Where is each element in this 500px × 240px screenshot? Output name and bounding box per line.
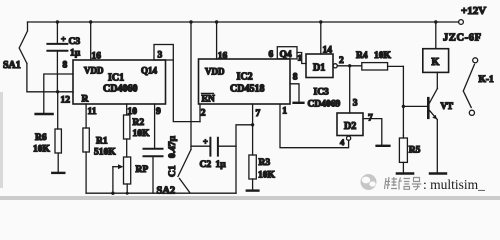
wire R4 to base node	[402, 66, 404, 138]
wire IC1 pin9	[155, 104, 161, 148]
ground IC2 pin8	[294, 102, 304, 104]
node bus junction SA2 branch	[189, 20, 192, 23]
capacitor C1	[144, 135, 179, 193]
node Q14 pin3 boxed label	[154, 45, 173, 61]
wire IC1 pin10	[127, 104, 138, 117]
wire IC2 pin1 to D2 output	[280, 104, 349, 148]
node reset junction	[56, 90, 59, 93]
node bus junction relay K	[434, 20, 437, 23]
wire C2 right branch	[236, 125, 253, 193]
wire +12V top bus	[28, 21, 459, 23]
resistor R3	[249, 155, 276, 190]
transistor Q1 VT	[403, 88, 453, 119]
node D1 output junction	[348, 64, 351, 67]
svg-text:: multisim_: : multisim_	[423, 177, 485, 192]
node Q4 boxed label	[277, 47, 297, 60]
watermark band	[0, 196, 500, 200]
switch K-1 relay contact	[463, 58, 494, 116]
relay K JZC-6F	[423, 22, 482, 72]
node base junction	[402, 105, 405, 108]
switch SA1	[3, 22, 28, 71]
ground emitter	[430, 172, 446, 174]
glyph hao	[412, 178, 422, 190]
wire D2 input	[350, 66, 358, 113]
wire emitter to ground	[436, 120, 438, 173]
resistor R6	[33, 92, 61, 172]
wire IC1 pin16 VDD	[91, 22, 102, 62]
node RP wiper junction	[111, 192, 114, 195]
capacitor C3	[47, 22, 80, 92]
op-amp U4 inverter D2	[337, 113, 363, 136]
node pin7 C2 junction	[251, 123, 254, 126]
resistor R5	[399, 135, 420, 172]
wire SA2 branch from bus	[190, 22, 192, 150]
ground R3	[247, 189, 259, 191]
node bus junction IC1 VDD	[89, 20, 92, 23]
resistor R1	[83, 128, 116, 193]
left edge artifact	[0, 92, 3, 188]
node bus junction C3	[56, 20, 59, 23]
glyph wei	[385, 177, 398, 189]
resistor R2	[124, 115, 151, 157]
wire IC1 pin8 to ground	[44, 74, 73, 113]
potentiometer RP	[113, 157, 148, 193]
wire collector to relay	[436, 72, 438, 88]
wire Q14 output down	[173, 60, 200, 122]
ground R5	[397, 172, 413, 174]
wire IC2 pin16 VDD	[217, 22, 228, 62]
op-amp U1 IC1 CD4060 box	[73, 60, 166, 105]
op-amp U3 inverter D1	[306, 54, 333, 78]
node D1 output bubble	[333, 56, 344, 68]
node RP bottom junction	[126, 192, 129, 195]
watermark text	[385, 177, 422, 190]
pin 2 label IC2	[201, 109, 206, 119]
wire Q4 to D1 input	[297, 53, 306, 64]
ground IC1 pin8	[36, 113, 53, 115]
wire D2 pin7 to ground	[363, 114, 382, 145]
pin 8 label IC1	[63, 61, 68, 71]
wire IC3 pin14 VDD	[321, 22, 332, 56]
wire IC2 pin7	[253, 104, 261, 155]
op-amp U2 IC2 CD4518 box	[199, 59, 291, 105]
wire SA1 to reset node	[27, 63, 73, 91]
ground R6	[52, 172, 64, 174]
label IC3 CD4069	[308, 88, 341, 110]
wire D1 output to R4	[337, 65, 362, 67]
resistor R4	[356, 51, 403, 70]
node bus junction IC2 VDD	[215, 20, 218, 23]
wire IC1 pin11	[86, 104, 97, 128]
wire oscillator bottom rail	[86, 192, 236, 194]
node bus junction IC3 pin14	[319, 20, 322, 23]
wire IC2 pin8 to ground	[290, 73, 299, 102]
node +12V terminal	[459, 5, 487, 24]
node D2 output bubble pin4	[340, 136, 351, 147]
pin 12 label IC1	[61, 96, 71, 106]
capacitor C2	[191, 137, 236, 171]
ground D2 pin7	[377, 145, 390, 147]
wire IC2 pin2 stub	[199, 104, 201, 122]
switch SA2	[157, 150, 192, 197]
pin 6 label IC2	[269, 50, 274, 60]
glyph xin	[399, 178, 410, 190]
